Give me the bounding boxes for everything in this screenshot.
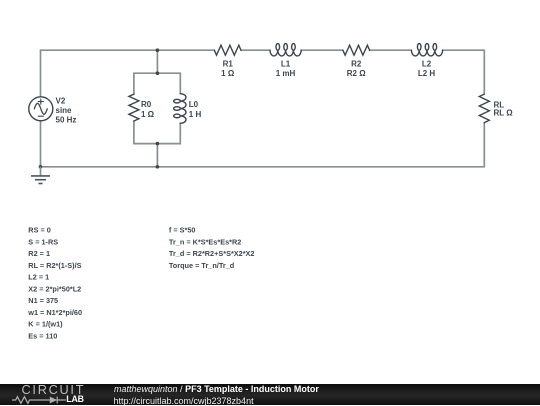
inductor L0: [174, 94, 186, 124]
svg-text:R01 Ω: R01 Ω: [141, 100, 155, 119]
junction node 4: [156, 165, 160, 169]
resistor R0: [129, 94, 139, 121]
resistor R2: [343, 45, 370, 55]
resistor RL: [479, 94, 489, 123]
footer title: [114, 384, 319, 395]
wire stem top to parallel box: [156, 50, 158, 73]
inductor L1: [270, 44, 301, 56]
logo wire with resistor and diode: [12, 396, 66, 403]
junction node 2: [156, 71, 160, 75]
footer bar: [0, 384, 540, 405]
resistor R1: [214, 45, 241, 55]
svg-text:V2sine50 Hz: V2sine50 Hz: [56, 96, 77, 124]
svg-text:R11 Ω: R11 Ω: [221, 59, 235, 78]
wire ground stub: [40, 167, 42, 176]
svg-text:f = S*50Tr_n = K*S*Es*Es*R2Tr_: f = S*50Tr_n = K*S*Es*Es*R2Tr_d = R2*R2+…: [169, 226, 255, 270]
svg-text:R2R2 Ω: R2R2 Ω: [347, 59, 366, 78]
inductor L2: [411, 44, 442, 56]
CircuitLab logo: [12, 384, 104, 405]
junction node 5: [39, 165, 43, 169]
svg-text:L01 H: L01 H: [189, 100, 202, 119]
wire bottom: [41, 166, 485, 168]
footer url: [114, 396, 254, 406]
wire right (RL branch): [483, 50, 485, 167]
junction node 3: [156, 142, 160, 146]
wire left (V2 branch): [40, 50, 42, 167]
voltage source V2: [29, 97, 53, 121]
svg-text:L2L2 H: L2L2 H: [418, 59, 436, 78]
ground: [31, 176, 50, 184]
svg-text:L11 mH: L11 mH: [276, 59, 296, 78]
wire parallel box frame: [134, 73, 180, 143]
wire stem box to bottom: [156, 144, 158, 167]
svg-text:RS = 0S = 1-RSR2 = 1RL = R2*(1: RS = 0S = 1-RSR2 = 1RL = R2*(1-S)/SL2 = …: [27, 226, 82, 341]
svg-text:RLRL Ω: RLRL Ω: [494, 101, 514, 118]
junction node 1: [156, 48, 160, 52]
wire top: [41, 49, 485, 51]
